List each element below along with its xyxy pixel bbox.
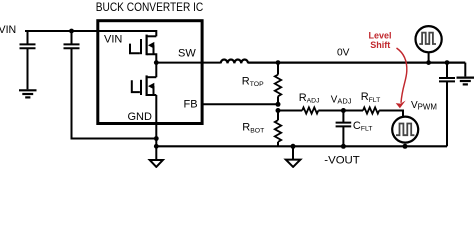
svg-text:SW: SW (178, 47, 196, 59)
transistor Q2 low-side FET (132, 63, 157, 96)
junction RADJ branch (276, 108, 281, 113)
wire VIN rail inside box (99, 30, 156, 32)
junction cap2 on VIN rail (69, 29, 74, 34)
node SW junction dot (154, 60, 159, 65)
junction top source on rail (426, 60, 431, 65)
capacitor CIN2 (64, 31, 80, 48)
wire cap2 to GND node (72, 48, 157, 138)
wire VIN rail (25, 30, 156, 32)
ground earth symbol left (19, 90, 37, 97)
junction CFLT bottom (341, 144, 346, 149)
ground triangle symbol under GND (150, 160, 163, 167)
resistor RFLT (363, 107, 379, 113)
wire SW output (156, 62, 220, 64)
transistor Q1 high-side FET (130, 30, 156, 63)
wire GND pin column (155, 95, 157, 160)
wire RFLT to VPWM (379, 111, 403, 117)
svg-text:0V: 0V (337, 48, 350, 59)
svg-text:GND: GND (128, 111, 153, 123)
resistor RTOP (275, 63, 281, 105)
wire -VOUT rail (156, 145, 447, 147)
node VADJ junction (341, 108, 346, 113)
ground earth symbol right (457, 63, 474, 85)
resistor RADJ (302, 107, 318, 113)
svg-text:FB: FB (184, 98, 198, 110)
op IC box buck converter (98, 21, 202, 124)
capacitor CIN1 (20, 31, 36, 89)
junction GND / input return (154, 136, 159, 141)
ground triangle symbol mid (286, 146, 301, 167)
capacitor COUT (439, 63, 455, 147)
resistor RBOT (275, 111, 281, 147)
junction VPWM bottom (403, 144, 408, 149)
svg-text:VIN: VIN (104, 34, 122, 46)
wire FB (203, 103, 279, 105)
svg-text:-VOUT: -VOUT (324, 154, 359, 166)
junction GND / -VOUT rail (154, 144, 159, 149)
capacitor CFLT (336, 111, 352, 147)
junction triangle ground branch (291, 144, 296, 149)
annotation red arrow curve (397, 48, 407, 103)
svg-text:BUCK CONVERTER IC: BUCK CONVERTER IC (96, 2, 204, 14)
svg-text:VIN: VIN (0, 24, 16, 36)
junction output cap on rail (445, 60, 450, 65)
svg-text:VPWM: VPWM (411, 100, 437, 111)
wire RADJ branch (278, 110, 302, 112)
junction FB node (276, 102, 281, 107)
source VPWM generator circle (392, 117, 418, 143)
svg-text:VADJ: VADJ (331, 94, 352, 105)
junction RTOP top (276, 60, 281, 65)
source top generator circle (416, 26, 442, 63)
inductor L1 (221, 60, 248, 64)
wire 0V rail (248, 61, 465, 63)
annotation red arrowhead (396, 101, 406, 109)
wire RADJ to VADJ (318, 110, 363, 112)
svg-text:Shift: Shift (370, 40, 390, 50)
